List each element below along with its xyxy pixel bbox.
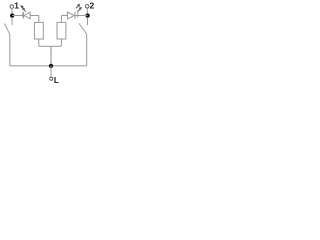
wire: [60, 39, 62, 46]
LED D2 triangle (points right): [67, 12, 74, 19]
wire (bottom rail): [10, 65, 87, 67]
svg-text:2: 2: [90, 1, 95, 11]
wire (center vertical): [50, 46, 52, 66]
wire: [75, 15, 88, 17]
LED D1 light arrows (point up-left): [21, 6, 26, 12]
terminal 2: [85, 5, 89, 9]
wire: [9, 34, 11, 66]
terminal L: [50, 77, 53, 80]
switch S1 upper contact wire: [11, 17, 13, 25]
LED D1 stub tick: [22, 13, 24, 18]
switch S1 blade: [4, 23, 9, 34]
wire: [38, 39, 40, 46]
resistor R2: [57, 22, 66, 39]
terminal 1: [10, 5, 14, 9]
wire: [86, 34, 88, 66]
wire: [30, 15, 39, 17]
wire: [50, 66, 52, 77]
LED D1 cathode bar: [23, 12, 25, 19]
switch S2 upper contact wire: [87, 17, 89, 25]
svg-text:L: L: [54, 75, 59, 85]
svg-text:1: 1: [14, 1, 19, 11]
wire: [60, 16, 62, 23]
wire: [51, 45, 61, 47]
switch S2 blade: [79, 23, 87, 34]
node (junction dot bottom): [49, 64, 53, 68]
wire: [39, 45, 51, 47]
wire: [86, 8, 88, 14]
LED D1 triangle (points left): [24, 12, 30, 19]
node (junction dot left): [10, 13, 14, 17]
LED D2 light arrows (point up-right): [76, 4, 81, 12]
resistor R1: [34, 22, 43, 39]
LED D2 stub tick: [77, 13, 79, 18]
node (junction dot right): [85, 13, 89, 17]
wire: [12, 15, 23, 17]
LED D2 cathode bar: [74, 12, 76, 19]
wire: [11, 9, 13, 14]
wire: [38, 16, 40, 23]
wire: [61, 15, 67, 17]
